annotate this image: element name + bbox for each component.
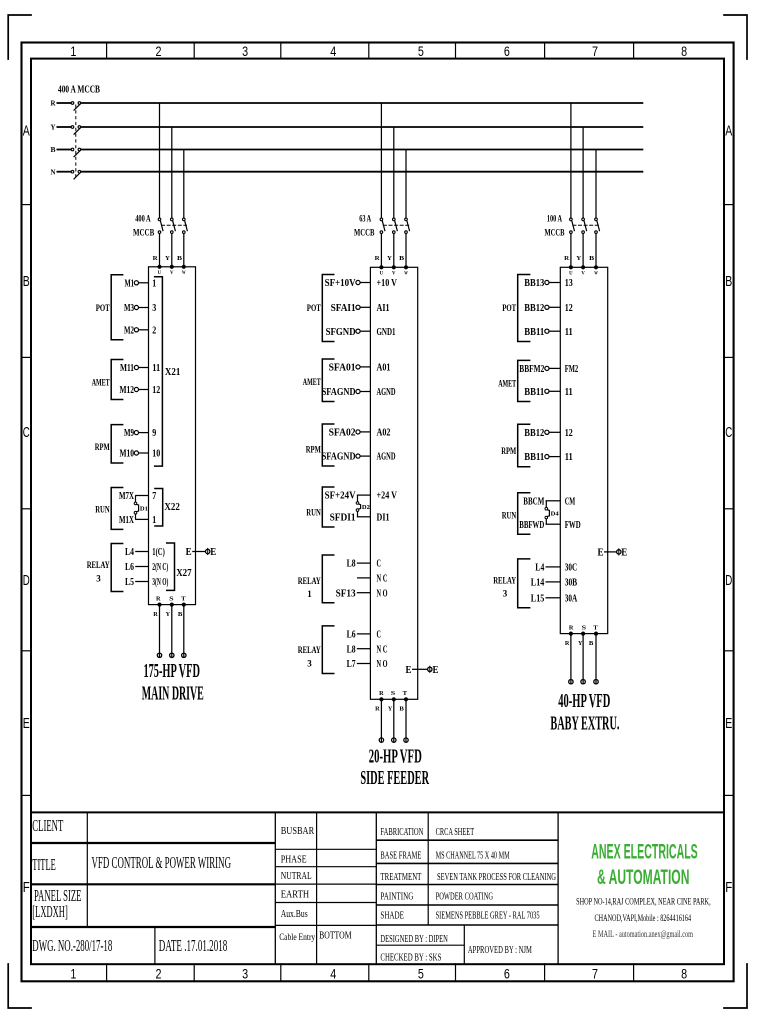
terminal row L7 -> N O of VFD2 <box>347 658 388 670</box>
svg-text:BB11: BB11 <box>524 326 544 338</box>
svg-text:Y: Y <box>387 255 392 262</box>
svg-text:M1: M1 <box>125 277 135 289</box>
svg-text:11: 11 <box>565 326 573 338</box>
svg-text:N O: N O <box>377 587 388 599</box>
terminal row BB11 -> 11 of VFD3 <box>524 326 572 338</box>
terminal row L5 -> 3(N O) of VFD1 <box>125 576 168 588</box>
svg-text:SHADE: SHADE <box>380 910 404 922</box>
svg-text:E: E <box>210 547 216 558</box>
svg-text:AMET: AMET <box>303 377 321 388</box>
svg-text:W: W <box>404 272 408 277</box>
diode D2 <box>356 495 370 517</box>
svg-text:3: 3 <box>152 302 156 314</box>
svg-text:BUSBAR: BUSBAR <box>281 826 315 837</box>
terminal row BBFWD -> FWD of VFD3 <box>519 519 580 531</box>
terminal row SFAGND -> AGND of VFD2 <box>322 451 396 463</box>
svg-text:FABRICATION: FABRICATION <box>380 826 423 838</box>
diode D4 <box>545 501 559 524</box>
svg-text:2: 2 <box>152 324 156 336</box>
earth terminal E of VFD3 <box>598 548 628 559</box>
wire R MCCB to VFD2 input <box>380 233 382 267</box>
svg-text:12: 12 <box>565 427 573 439</box>
svg-text:L4: L4 <box>535 562 544 574</box>
svg-text:E: E <box>23 716 30 732</box>
terminal row L14 -> 30B of VFD3 <box>531 577 578 589</box>
svg-text:3: 3 <box>96 573 101 584</box>
svg-text:175-HP VFD: 175-HP VFD <box>143 661 200 682</box>
breaker linkage (VFD2 branch MCCB) <box>383 224 409 226</box>
svg-text:SIEMENS PEBBLE GREY - RAL 7035: SIEMENS PEBBLE GREY - RAL 7035 <box>436 910 540 922</box>
svg-text:APPROVED BY : NJM: APPROVED BY : NJM <box>468 944 532 956</box>
wire output B to motor <box>404 699 408 742</box>
wire drop Y to VFD1 MCCB <box>171 127 173 218</box>
wire output Y to motor <box>581 634 585 685</box>
svg-text:MCCB: MCCB <box>545 229 565 239</box>
svg-text:RELAY: RELAY <box>298 645 321 656</box>
terminal strip X21 <box>154 277 181 466</box>
breaker pole B (VFD3 branch MCCB) <box>595 218 600 233</box>
svg-text:Cable Entry: Cable Entry <box>279 932 315 942</box>
svg-text:AMET: AMET <box>498 378 516 389</box>
terminal row L15 -> 30A of VFD3 <box>531 592 577 604</box>
wire output Y to motor <box>392 699 396 742</box>
svg-text:B: B <box>399 706 404 713</box>
svg-text:S: S <box>169 595 174 602</box>
VFD unit VFD3 (40-HP VFD) <box>560 267 607 633</box>
svg-text:RUN: RUN <box>502 510 517 521</box>
terminal row SFA02 -> A02 of VFD2 <box>329 427 391 439</box>
breaker pole R (VFD3 branch MCCB) <box>570 218 575 233</box>
svg-text:Y: Y <box>165 255 170 262</box>
svg-text:& AUTOMATION: & AUTOMATION <box>597 865 690 889</box>
svg-text:MCCB: MCCB <box>133 229 155 239</box>
svg-text:RUN: RUN <box>306 507 321 518</box>
svg-text:L6: L6 <box>125 561 134 573</box>
svg-text:63 A: 63 A <box>359 215 371 225</box>
svg-text:M3: M3 <box>124 302 134 314</box>
svg-text:10: 10 <box>152 448 160 460</box>
svg-text:Y: Y <box>51 124 56 132</box>
corner mark top-right <box>724 15 747 59</box>
svg-text:DATE .17.01.2018: DATE .17.01.2018 <box>159 936 228 955</box>
terminal row M1X -> 1 of VFD1 <box>119 514 156 526</box>
breaker pole Y (VFD1 branch MCCB) <box>171 218 176 233</box>
svg-text:2: 2 <box>156 43 162 59</box>
svg-text:B: B <box>589 640 594 647</box>
svg-text:R: R <box>379 690 384 697</box>
svg-text:L8: L8 <box>347 558 356 570</box>
svg-text:1: 1 <box>70 966 76 982</box>
svg-text:AGND: AGND <box>377 451 396 463</box>
svg-text:V: V <box>170 271 174 276</box>
wire N bus <box>81 171 644 173</box>
svg-text:100 A: 100 A <box>547 215 562 225</box>
svg-text:400 A MCCB: 400 A MCCB <box>58 85 100 96</box>
svg-text:B: B <box>51 146 56 154</box>
terminal S (output) <box>169 595 174 606</box>
svg-text:BB13: BB13 <box>524 277 544 289</box>
terminal row M12 -> 12 of VFD1 <box>120 384 161 396</box>
svg-text:POWDER COATING: POWDER COATING <box>436 890 494 902</box>
svg-text:B: B <box>177 255 183 262</box>
wire drop R to VFD2 MCCB <box>380 103 382 218</box>
terminal W (input) <box>594 266 598 277</box>
svg-text:V: V <box>392 272 396 277</box>
svg-text:S: S <box>391 690 396 697</box>
svg-text:7: 7 <box>592 966 598 982</box>
svg-text:D: D <box>23 573 30 589</box>
terminal V (input) <box>392 266 396 277</box>
svg-text:SF13: SF13 <box>336 587 356 599</box>
svg-text:BB11: BB11 <box>524 386 544 398</box>
svg-text:BBFM2: BBFM2 <box>519 363 544 375</box>
svg-text:6: 6 <box>504 966 510 982</box>
svg-text:VFD CONTROL & POWER WIRING: VFD CONTROL & POWER WIRING <box>92 853 232 872</box>
svg-text:E: E <box>186 547 192 558</box>
svg-text:4: 4 <box>330 966 336 982</box>
svg-text:D1: D1 <box>140 506 148 512</box>
svg-text:S: S <box>582 624 587 631</box>
svg-text:TREATMENT: TREATMENT <box>380 871 421 883</box>
svg-text:X22: X22 <box>164 502 180 513</box>
terminal row SF+24V -> +24 V of VFD2 <box>325 490 397 502</box>
svg-text:U: U <box>158 271 162 276</box>
svg-text:L7: L7 <box>347 658 356 670</box>
svg-text:TITLE: TITLE <box>32 855 56 874</box>
svg-text:E: E <box>433 665 439 676</box>
wire Y MCCB to VFD3 input <box>582 233 584 267</box>
svg-text:SFA01: SFA01 <box>329 362 356 374</box>
svg-text:7: 7 <box>152 490 156 502</box>
svg-text:Y: Y <box>576 255 581 262</box>
svg-text:11: 11 <box>565 386 573 398</box>
svg-text:D4: D4 <box>551 512 559 518</box>
group bracket POT <box>96 275 124 340</box>
wire output B to motor <box>182 605 186 658</box>
terminal U (input) <box>569 266 573 277</box>
svg-text:2: 2 <box>156 966 162 982</box>
svg-text:20-HP VFD: 20-HP VFD <box>369 746 422 767</box>
earth terminal E of VFD2 <box>406 665 439 676</box>
svg-text:E: E <box>621 548 627 559</box>
svg-text:L15: L15 <box>531 592 545 604</box>
svg-text:M11: M11 <box>120 362 134 374</box>
wire R bus <box>81 102 644 104</box>
svg-text:CRCA SHEET: CRCA SHEET <box>436 826 475 838</box>
wire output B to motor <box>594 634 598 685</box>
svg-text:CHECKED BY : SKS: CHECKED BY : SKS <box>380 952 441 964</box>
breaker linkage (VFD3 branch MCCB) <box>572 224 599 226</box>
svg-text:1: 1 <box>152 277 156 289</box>
svg-text:MS CHANNEL 75 X 40 MM: MS CHANNEL 75 X 40 MM <box>436 849 510 861</box>
wire R bus lead-in <box>57 102 72 104</box>
svg-text:R: R <box>375 255 380 262</box>
wire drop B to VFD1 MCCB <box>183 150 185 219</box>
group bracket RELAY 3 <box>87 544 124 592</box>
svg-text:R: R <box>153 255 158 262</box>
svg-text:N: N <box>51 168 56 176</box>
svg-text:+10 V: +10 V <box>377 277 398 289</box>
wire drop Y to VFD2 MCCB <box>393 127 395 218</box>
svg-text:E: E <box>598 548 604 559</box>
svg-text:ANEX ELECTRICALS: ANEX ELECTRICALS <box>591 840 698 864</box>
breaker linkage (400A MCCB) <box>75 105 77 180</box>
svg-text:SFAGND: SFAGND <box>322 386 356 398</box>
terminal row SFAI1 -> AI1 of VFD2 <box>331 302 390 314</box>
wire output Y to motor <box>170 605 174 658</box>
group bracket RUN <box>502 493 531 534</box>
terminal row L4 -> 30C of VFD3 <box>535 562 577 574</box>
wire Y bus <box>81 126 644 128</box>
svg-text:SFA02: SFA02 <box>329 427 356 439</box>
svg-text:V: V <box>581 272 585 277</box>
group bracket RUN <box>95 488 123 530</box>
svg-text:A02: A02 <box>377 427 391 439</box>
terminal row BB11 -> 11 of VFD3 <box>524 451 572 463</box>
diode D1 <box>134 496 148 520</box>
wire R MCCB to VFD3 input <box>570 233 572 267</box>
svg-text:3: 3 <box>503 589 508 600</box>
wire B bus <box>81 149 644 151</box>
svg-text:M10: M10 <box>120 448 135 460</box>
svg-text:30B: 30B <box>565 577 578 589</box>
wire drop Y to VFD3 MCCB <box>582 127 584 218</box>
svg-text:T: T <box>593 624 598 631</box>
terminal V (input) <box>581 266 585 277</box>
svg-text:Y: Y <box>388 706 393 713</box>
terminal row L6 -> 2(N C) of VFD1 <box>125 561 168 573</box>
svg-text:5: 5 <box>418 43 424 59</box>
svg-text:RELAY: RELAY <box>87 560 110 571</box>
terminal row (nc) -> N C of VFD2 <box>357 573 388 585</box>
breaker pole B of 400A MCCB <box>71 148 81 157</box>
terminal row BBCM -> CM of VFD3 <box>523 495 575 507</box>
svg-text:SF+24V: SF+24V <box>325 490 356 502</box>
svg-text:RELAY: RELAY <box>493 575 516 586</box>
breaker pole N of 400A MCCB <box>71 170 81 179</box>
earth terminal E of VFD1 <box>186 547 217 558</box>
svg-text:L8: L8 <box>347 643 356 655</box>
svg-text:B: B <box>725 274 732 290</box>
svg-text:Y: Y <box>166 611 171 618</box>
terminal R (output) <box>569 624 574 635</box>
terminal row SFAGND -> AGND of VFD2 <box>322 386 396 398</box>
svg-text:MCCB: MCCB <box>354 229 375 239</box>
VFD unit VFD2 (20-HP VFD) <box>370 267 417 699</box>
group bracket POT <box>307 275 335 342</box>
svg-text:SF+10V: SF+10V <box>325 277 356 289</box>
svg-text:DI1: DI1 <box>377 511 390 523</box>
svg-text:RPM: RPM <box>501 446 516 457</box>
svg-text:SFDI1: SFDI1 <box>330 511 356 523</box>
group bracket RELAY 3 <box>298 626 335 674</box>
svg-text:F: F <box>725 880 732 896</box>
svg-text:11: 11 <box>152 362 160 374</box>
svg-text:3: 3 <box>242 966 248 982</box>
terminal row L8 -> N C of VFD2 <box>347 643 388 655</box>
breaker pole R of 400A MCCB <box>71 102 81 111</box>
terminal row BBFM2 -> FM2 of VFD3 <box>519 363 578 375</box>
svg-text:4: 4 <box>330 43 336 59</box>
svg-text:A: A <box>725 123 732 139</box>
svg-text:B: B <box>399 255 405 262</box>
terminal T (output) <box>181 595 186 606</box>
terminal U (input) <box>158 265 162 276</box>
breaker pole Y (VFD2 branch MCCB) <box>393 218 398 233</box>
svg-text:11: 11 <box>565 451 573 463</box>
svg-text:AI1: AI1 <box>377 302 390 314</box>
svg-text:SHOP NO-14,RAJ COMPLEX, NEAR C: SHOP NO-14,RAJ COMPLEX, NEAR CINE PARK, <box>576 898 711 908</box>
svg-text:1: 1 <box>152 514 156 526</box>
breaker pole R (VFD1 branch MCCB) <box>158 218 163 233</box>
terminal row SFGND -> GND1 of VFD2 <box>326 326 396 338</box>
svg-text:7: 7 <box>592 43 598 59</box>
svg-text:SFAI1: SFAI1 <box>331 302 356 314</box>
terminal T (output) <box>593 624 598 635</box>
svg-text:1: 1 <box>307 589 312 600</box>
svg-text:DWG. NO.-280/17-18: DWG. NO.-280/17-18 <box>32 936 112 955</box>
terminal row M11 -> 11 of VFD1 <box>120 362 160 374</box>
breaker pole B (VFD2 branch MCCB) <box>405 218 410 233</box>
wire output R to motor <box>569 634 573 685</box>
svg-text:W: W <box>594 272 598 277</box>
svg-text:BB12: BB12 <box>524 427 544 439</box>
svg-text:3: 3 <box>242 43 248 59</box>
terminal row M1 -> 1 of VFD1 <box>125 277 157 289</box>
terminal S (output) <box>391 690 396 701</box>
svg-text:B: B <box>178 611 183 618</box>
svg-text:BBCM: BBCM <box>523 495 544 507</box>
wire Y bus lead-in <box>57 126 72 128</box>
svg-text:1(C): 1(C) <box>152 546 165 558</box>
svg-text:L4: L4 <box>125 546 134 558</box>
svg-text:PHASE: PHASE <box>281 855 307 866</box>
terminal S (output) <box>582 624 587 635</box>
svg-text:D2: D2 <box>362 505 370 511</box>
svg-text:5: 5 <box>418 966 424 982</box>
group bracket RPM <box>306 424 335 466</box>
svg-text:12: 12 <box>565 302 573 314</box>
VFD unit VFD1 (175-HP VFD) <box>149 267 196 605</box>
terminal row SFDI1 -> DI1 of VFD2 <box>330 511 390 523</box>
wire output R to motor <box>379 699 383 742</box>
svg-text:POT: POT <box>307 303 321 314</box>
group bracket RPM <box>501 424 530 467</box>
terminal row BB12 -> 12 of VFD3 <box>524 427 573 439</box>
svg-text:BABY EXTRU.: BABY EXTRU. <box>550 713 619 734</box>
wire drop B to VFD3 MCCB <box>595 150 597 219</box>
corner mark bottom-left <box>8 964 31 1008</box>
svg-text:40-HP VFD: 40-HP VFD <box>558 691 610 712</box>
svg-text:E MAIL - automation.anex@gmail: E MAIL - automation.anex@gmail.com <box>593 930 694 940</box>
svg-text:9: 9 <box>152 427 156 439</box>
svg-text:MAIN DRIVE: MAIN DRIVE <box>142 683 204 704</box>
svg-text:M9: M9 <box>124 427 134 439</box>
group bracket RELAY 1 <box>298 555 335 603</box>
svg-text:RPM: RPM <box>306 444 321 455</box>
wire R MCCB to VFD1 input <box>159 233 161 266</box>
terminal row M9 -> 9 of VFD1 <box>124 427 157 439</box>
group bracket AMET <box>92 360 124 400</box>
svg-text:30C: 30C <box>565 562 578 574</box>
svg-text:L6: L6 <box>347 629 356 641</box>
svg-text:Y: Y <box>578 640 583 647</box>
svg-text:POT: POT <box>96 303 110 314</box>
svg-text:N C: N C <box>377 573 388 585</box>
terminal strip X27 <box>166 543 192 590</box>
terminal row BB13 -> 13 of VFD3 <box>524 277 573 289</box>
group bracket RUN <box>306 487 334 527</box>
group bracket AMET <box>303 359 335 402</box>
svg-text:2(N C): 2(N C) <box>152 561 168 573</box>
svg-text:AGND: AGND <box>377 386 396 398</box>
svg-text:Aux.Bus: Aux.Bus <box>281 909 308 920</box>
svg-text:1: 1 <box>70 43 76 59</box>
svg-text:A01: A01 <box>377 362 391 374</box>
svg-text:N C: N C <box>377 643 388 655</box>
svg-text:B: B <box>589 255 595 262</box>
svg-text:U: U <box>569 272 573 277</box>
svg-text:C: C <box>725 425 732 441</box>
svg-text:N O: N O <box>377 658 388 670</box>
group bracket AMET <box>498 360 530 401</box>
svg-text:400 A: 400 A <box>135 215 151 225</box>
svg-text:X21: X21 <box>165 367 181 378</box>
svg-text:POT: POT <box>502 303 516 314</box>
svg-text:CM: CM <box>565 495 576 507</box>
svg-text:3(N O): 3(N O) <box>152 576 168 588</box>
wire drop R to VFD1 MCCB <box>159 103 161 218</box>
terminal row L4 -> 1(C) of VFD1 <box>125 546 165 558</box>
svg-text:M7X: M7X <box>119 490 134 502</box>
wire B bus lead-in <box>57 149 72 151</box>
terminal W (input) <box>182 265 186 276</box>
svg-text:RUN: RUN <box>95 504 110 515</box>
corner mark bottom-right <box>724 964 747 1008</box>
terminal row SF13 -> N O of VFD2 <box>336 587 388 599</box>
terminal row BB11 -> 11 of VFD3 <box>524 386 572 398</box>
svg-text:NUTRAL: NUTRAL <box>281 871 312 882</box>
corner mark top-left <box>8 15 31 59</box>
breaker pole Y of 400A MCCB <box>71 126 81 135</box>
svg-text:W: W <box>182 271 186 276</box>
svg-text:30A: 30A <box>565 592 578 604</box>
terminal row M2 -> 2 of VFD1 <box>124 324 157 336</box>
wire output R to motor <box>157 605 161 658</box>
svg-text:E: E <box>406 665 412 676</box>
svg-text:CHANOD,VAPI,Mobile : 826441616: CHANOD,VAPI,Mobile : 8264416164 <box>595 914 692 924</box>
svg-text:GND1: GND1 <box>377 326 396 338</box>
group bracket POT <box>502 275 530 342</box>
breaker pole B (VFD1 branch MCCB) <box>183 218 188 233</box>
terminal V (input) <box>170 265 174 276</box>
svg-text:CLIENT: CLIENT <box>32 816 63 835</box>
svg-text:R: R <box>565 640 570 647</box>
svg-text:L14: L14 <box>531 577 545 589</box>
svg-text:SIDE FEEDER: SIDE FEEDER <box>360 768 429 789</box>
svg-text:13: 13 <box>565 277 573 289</box>
terminal row BB12 -> 12 of VFD3 <box>524 302 573 314</box>
breaker pole Y (VFD3 branch MCCB) <box>582 218 587 233</box>
breaker pole R (VFD2 branch MCCB) <box>380 218 385 233</box>
wire N bus lead-in <box>57 171 72 173</box>
svg-text:DESIGNED BY : DIPEN: DESIGNED BY : DIPEN <box>380 933 448 945</box>
wire B MCCB to VFD2 input <box>405 233 407 267</box>
terminal R (output) <box>379 690 384 701</box>
svg-text:SFGND: SFGND <box>326 326 356 338</box>
terminal row M3 -> 3 of VFD1 <box>124 302 157 314</box>
svg-text:C: C <box>377 629 382 641</box>
